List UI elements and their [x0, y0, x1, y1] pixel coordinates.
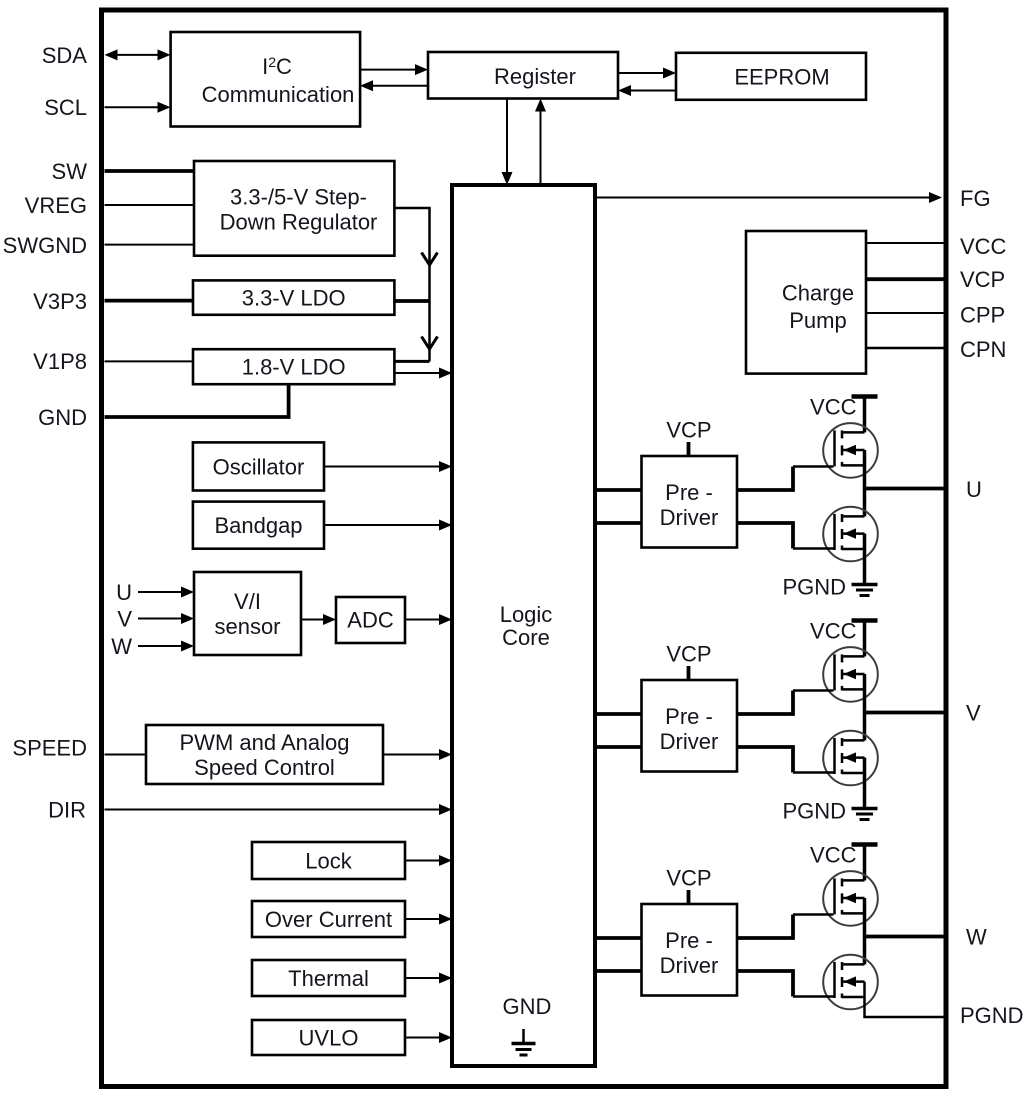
block PWM and Analog Speed Control: [146, 725, 383, 784]
block 1.8-V LDO: [193, 349, 394, 384]
wire Pre-Driver to low gate phase W: [737, 971, 834, 997]
wire Over Current to Logic Core: [405, 914, 452, 925]
svg-text:W: W: [111, 634, 132, 659]
block EEPROM: [676, 53, 866, 100]
wire Charge Pump VCP: [866, 277, 944, 281]
svg-text:CPP: CPP: [960, 303, 1005, 328]
svg-text:Bandgap: Bandgap: [214, 513, 302, 538]
block 3.3-/5-V Step-Down Regulator: [194, 161, 394, 256]
svg-text:V: V: [117, 607, 132, 632]
svg-text:GND: GND: [503, 994, 552, 1019]
wire FG from Logic Core: [595, 192, 942, 203]
wire U sense: [138, 587, 194, 598]
transistor high-side NMOS phase W: [823, 871, 878, 926]
svg-text:Lock: Lock: [305, 849, 352, 874]
block Charge Pump: [746, 231, 866, 374]
svg-text:3.3-V LDO: 3.3-V LDO: [242, 286, 346, 311]
svg-text:SDA: SDA: [42, 43, 88, 68]
svg-text:I2C: I2C: [262, 54, 292, 79]
wire Pre-Driver to high gate phase V: [737, 691, 834, 715]
svg-text:Driver: Driver: [660, 729, 719, 754]
wire V/I sensor to ADC: [301, 614, 336, 625]
svg-text:Driver: Driver: [660, 953, 719, 978]
block Pre-Driver phase U: [642, 456, 738, 548]
wire Pre-Driver to low gate phase U: [737, 523, 834, 549]
svg-text:VCP: VCP: [666, 866, 711, 891]
svg-text:PWM and Analog: PWM and Analog: [180, 730, 350, 755]
wire phase output W: [865, 935, 944, 939]
svg-text:VCP: VCP: [666, 418, 711, 443]
svg-text:Pre -: Pre -: [665, 928, 713, 953]
wire SPEED: [105, 754, 147, 756]
svg-text:GND: GND: [38, 405, 87, 430]
svg-text:Down Regulator: Down Regulator: [220, 210, 378, 235]
wire DIR to Logic Core: [105, 804, 453, 815]
wire 3.3-V LDO output to rail: [394, 299, 429, 303]
power VCC rail bar phase W: [852, 845, 878, 881]
wire 1.8-V LDO to Logic Core: [394, 368, 452, 379]
svg-text:Oscillator: Oscillator: [213, 455, 305, 480]
wire high source to low drain phase W: [863, 898, 867, 964]
wire Register to EEPROM: [618, 68, 676, 79]
wire Lock to Logic Core: [405, 855, 452, 866]
block Pre-Driver phase W: [642, 904, 738, 996]
svg-text:UVLO: UVLO: [299, 1026, 359, 1051]
svg-text:V/I: V/I: [234, 589, 261, 614]
wire regulator output rail: [394, 208, 429, 361]
wire Oscillator to Logic Core: [324, 461, 452, 472]
wire Pre-Driver to high gate phase W: [737, 915, 834, 939]
wire phase output V: [865, 711, 944, 715]
wire 1.8-V LDO output to rail: [394, 360, 429, 363]
svg-text:Pre -: Pre -: [665, 480, 713, 505]
transistor high-side NMOS phase V: [823, 647, 878, 702]
block Logic Core: [452, 185, 595, 1066]
wire VCP stub phase U: [687, 442, 691, 456]
block 3.3-V LDO: [193, 280, 394, 314]
block V/I sensor: [194, 572, 301, 655]
arrow chevron down on rail lower: [422, 337, 438, 350]
wire VCP stub phase W: [687, 890, 691, 904]
wire low source to PGND pin phase W: [865, 982, 944, 1017]
svg-text:DIR: DIR: [48, 798, 86, 823]
svg-text:VCC: VCC: [810, 395, 857, 420]
wire Register to I2C: [360, 80, 428, 91]
block Bandgap: [193, 502, 324, 549]
svg-text:VCP: VCP: [666, 642, 711, 667]
svg-text:U: U: [116, 580, 132, 605]
wire high source to low drain phase V: [863, 674, 867, 740]
wire Pre-Driver to low gate phase V: [737, 747, 834, 773]
wire Charge Pump CPP: [866, 312, 944, 314]
wire SW: [105, 169, 195, 173]
svg-text:SPEED: SPEED: [12, 736, 87, 761]
block Over Current: [252, 901, 405, 937]
transistor low-side NMOS phase W: [823, 955, 878, 1010]
ground symbol PGND phase V: [852, 809, 878, 820]
svg-text:V1P8: V1P8: [33, 349, 87, 374]
svg-text:PGND: PGND: [782, 799, 846, 824]
wire VCP stub phase V: [687, 666, 691, 680]
transistor low-side NMOS phase U: [823, 507, 878, 562]
svg-text:VCC: VCC: [960, 234, 1007, 259]
wire W sense: [138, 641, 194, 652]
svg-text:Communication: Communication: [202, 82, 355, 107]
wire low source to PGND phase V: [863, 758, 867, 808]
svg-text:CPN: CPN: [960, 337, 1006, 362]
wire SDA bidirectional: [105, 49, 171, 60]
wire high source to low drain phase U: [863, 450, 867, 516]
svg-text:Thermal: Thermal: [288, 966, 369, 991]
wire ADC to Logic Core: [405, 614, 452, 625]
svg-text:Driver: Driver: [660, 505, 719, 530]
wire EEPROM to Register: [618, 85, 676, 96]
arrow chevron down on rail upper: [422, 253, 438, 266]
block ADC: [336, 597, 405, 643]
svg-text:PGND: PGND: [960, 1003, 1024, 1028]
wire Charge Pump VCC: [866, 242, 944, 244]
wire Logic Core to Pre-Driver low phase V: [595, 745, 642, 749]
block Register: [428, 52, 618, 99]
svg-text:VCC: VCC: [810, 619, 857, 644]
wire V sense: [138, 613, 194, 624]
svg-text:VCP: VCP: [960, 267, 1005, 292]
svg-text:Speed Control: Speed Control: [194, 755, 335, 780]
wire Register down to Logic Core: [502, 99, 513, 186]
block Oscillator: [193, 442, 324, 490]
svg-text:Core: Core: [502, 625, 550, 650]
svg-text:V3P3: V3P3: [33, 289, 87, 314]
wire Pre-Driver to high gate phase U: [737, 467, 834, 491]
wire Charge Pump CPN: [866, 347, 944, 350]
wire Bandgap to Logic Core: [324, 520, 452, 531]
svg-text:Over Current: Over Current: [265, 907, 392, 932]
wire phase output U: [865, 487, 944, 491]
wire V3P3: [105, 299, 194, 303]
svg-text:Logic: Logic: [500, 602, 553, 627]
wire Logic Core up to Register: [535, 99, 546, 186]
svg-text:sensor: sensor: [214, 614, 280, 639]
svg-text:3.3-/5-V Step-: 3.3-/5-V Step-: [230, 185, 367, 210]
wire Logic Core to Pre-Driver high phase U: [595, 488, 642, 492]
wire Logic Core to Pre-Driver low phase W: [595, 969, 642, 973]
svg-text:W: W: [966, 925, 987, 950]
svg-text:1.8-V LDO: 1.8-V LDO: [242, 355, 346, 380]
wire VREG: [105, 204, 195, 206]
svg-text:ADC: ADC: [347, 608, 394, 633]
svg-text:SCL: SCL: [44, 95, 87, 120]
ground symbol logic core: [512, 1029, 536, 1055]
wire V1P8: [105, 360, 194, 362]
block I2C Communication: [171, 32, 361, 127]
block Pre-Driver phase V: [642, 680, 738, 772]
wire SCL: [105, 102, 171, 113]
block UVLO: [252, 1020, 405, 1055]
svg-text:EEPROM: EEPROM: [734, 65, 829, 90]
ground symbol PGND phase U: [852, 585, 878, 596]
svg-text:U: U: [966, 477, 982, 502]
power VCC rail bar phase V: [852, 621, 878, 657]
block Thermal: [252, 960, 405, 996]
wire Logic Core to Pre-Driver high phase V: [595, 712, 642, 716]
wire GND: [105, 384, 289, 417]
svg-text:SWGND: SWGND: [3, 233, 87, 258]
svg-text:Pre -: Pre -: [665, 704, 713, 729]
svg-text:Charge: Charge: [782, 281, 854, 306]
wire UVLO to Logic Core: [405, 1032, 452, 1043]
svg-text:VCC: VCC: [810, 843, 857, 868]
wire PWM to Logic Core: [383, 749, 452, 760]
wire Logic Core to Pre-Driver low phase U: [595, 521, 642, 525]
svg-text:VREG: VREG: [25, 193, 87, 218]
transistor high-side NMOS phase U: [823, 423, 878, 478]
svg-text:SW: SW: [52, 159, 88, 184]
power VCC rail bar phase U: [852, 397, 878, 433]
svg-text:V: V: [966, 701, 981, 726]
transistor low-side NMOS phase V: [823, 731, 878, 786]
wire SWGND: [105, 244, 195, 246]
svg-text:FG: FG: [960, 186, 991, 211]
wire low source to PGND phase U: [863, 534, 867, 584]
wire Logic Core to Pre-Driver high phase W: [595, 936, 642, 940]
block Lock: [252, 842, 405, 879]
wire I2C to Register: [360, 64, 428, 75]
svg-text:PGND: PGND: [782, 575, 846, 600]
wire Thermal to Logic Core: [405, 973, 452, 984]
svg-text:Register: Register: [494, 64, 576, 89]
svg-text:Pump: Pump: [789, 308, 846, 333]
